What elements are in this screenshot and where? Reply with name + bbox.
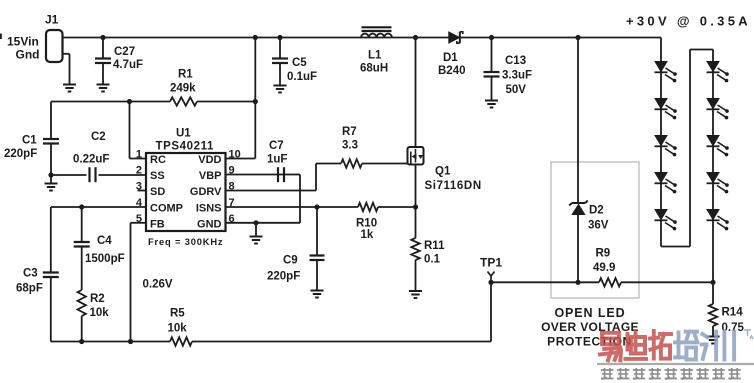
diode D2 zener <box>569 201 609 232</box>
svg-text:ISNS: ISNS <box>196 203 222 215</box>
wire C27 lower <box>102 63 104 84</box>
wire COMP row <box>51 206 146 208</box>
ground R11 <box>409 291 422 298</box>
svg-text:1: 1 <box>136 149 142 161</box>
wire C1 gnd stub <box>50 175 52 183</box>
wire C4 upper <box>81 207 83 241</box>
svg-text:R2: R2 <box>90 293 105 305</box>
node Q1 source junction <box>413 204 418 209</box>
ground C27 <box>97 85 110 92</box>
wire R14 lower <box>712 326 714 336</box>
watermark underline <box>597 363 754 365</box>
svg-text:OPEN LED: OPEN LED <box>554 306 625 320</box>
wire RC riser <box>130 102 147 159</box>
svg-text:Gnd: Gnd <box>16 48 40 62</box>
wire mid row left <box>491 281 599 283</box>
wire GDRV riser <box>315 164 317 191</box>
svg-text:Freq = 300KHz: Freq = 300KHz <box>148 237 223 247</box>
svg-text:GND: GND <box>197 219 222 231</box>
watermark big text <box>600 330 753 360</box>
LED D12 string1 <box>655 99 677 120</box>
svg-text:68uH: 68uH <box>360 63 388 75</box>
svg-text:C2: C2 <box>91 131 106 143</box>
svg-text:36V: 36V <box>588 220 609 232</box>
pin 7 ISNS <box>196 197 235 215</box>
wire Q1 source <box>415 165 417 208</box>
label open led text <box>541 306 639 349</box>
capacitor C5 <box>272 57 317 83</box>
pin 4 COMP <box>136 197 183 215</box>
node C4 tap <box>79 204 84 209</box>
wire R14 upper <box>712 282 714 304</box>
wire C5 upper <box>279 38 281 58</box>
wire TP1 drop <box>490 282 492 341</box>
LED D13 string1 <box>655 136 677 157</box>
capacitor C27 <box>95 46 143 71</box>
pin 1 RC <box>136 149 166 167</box>
wire R1 row <box>51 101 255 103</box>
edge mark <box>0 34 2 40</box>
svg-text:220pF: 220pF <box>4 148 37 160</box>
node RC tap <box>127 99 132 104</box>
LED D15 string1 <box>655 210 677 231</box>
wire C27 upper <box>102 38 104 58</box>
svg-text:+30V @ 0.35A: +30V @ 0.35A <box>626 14 751 29</box>
svg-text:0.22uF: 0.22uF <box>73 154 109 166</box>
resistor R7 <box>341 126 362 168</box>
inductor L1 <box>360 27 392 74</box>
transistor Q1 Si7116DN <box>408 147 482 192</box>
svg-text:10: 10 <box>229 149 241 161</box>
wire GND row <box>226 222 301 224</box>
wire C5 lower <box>279 63 281 85</box>
svg-text:B240: B240 <box>438 65 466 77</box>
resistor R10 <box>356 203 378 241</box>
svg-text:4.7uF: 4.7uF <box>113 59 143 71</box>
label FB voltage <box>143 279 173 291</box>
wire R11 upper <box>415 207 417 238</box>
wire GND gnd stub <box>255 223 257 236</box>
svg-text:VBP: VBP <box>199 170 222 182</box>
wire C3 upper <box>50 207 52 272</box>
svg-text:49.9: 49.9 <box>593 262 615 274</box>
wire C3 lower <box>50 277 52 342</box>
svg-text:3.3uF: 3.3uF <box>502 70 532 82</box>
ground C13 <box>485 101 498 108</box>
capacitor C9 <box>267 255 325 283</box>
svg-text:COMP: COMP <box>150 203 183 215</box>
wire C9 upper <box>316 207 318 255</box>
svg-text:C7: C7 <box>269 140 284 152</box>
svg-text:C4: C4 <box>97 235 112 247</box>
wire C1 upper <box>50 102 52 139</box>
node Q1 drain tap <box>413 35 418 40</box>
LED D11 string1 <box>655 62 677 83</box>
svg-text:SD: SD <box>150 186 165 198</box>
svg-text:C5: C5 <box>292 57 307 69</box>
svg-text:L1: L1 <box>368 50 382 62</box>
svg-text:C1: C1 <box>22 135 37 147</box>
LED D22 string2 <box>707 99 729 120</box>
ground R14 <box>707 337 720 344</box>
node R2 bottom <box>79 339 84 344</box>
wire SD stub <box>138 190 147 192</box>
pin 8 GDRV <box>190 181 235 199</box>
wire D2 upper <box>577 38 579 203</box>
svg-text:1500pF: 1500pF <box>85 253 125 265</box>
svg-text:U1: U1 <box>176 128 191 140</box>
svg-text:TP1: TP1 <box>480 256 502 270</box>
pin 10 VDD <box>198 149 240 167</box>
svg-text:VDD: VDD <box>198 154 221 166</box>
wire VBP row <box>226 174 301 176</box>
svg-text:Si7116DN: Si7116DN <box>425 180 482 192</box>
LED D24 string2 <box>707 173 729 194</box>
svg-text:1uF: 1uF <box>267 154 287 166</box>
capacitor C1 <box>4 135 59 161</box>
pin 6 GND <box>197 213 235 231</box>
svg-text:R11: R11 <box>424 240 445 252</box>
LED D23 string2 <box>707 136 729 157</box>
svg-text:TPS40211: TPS40211 <box>156 141 215 153</box>
svg-text:R9: R9 <box>596 248 611 260</box>
svg-text:2: 2 <box>136 165 142 177</box>
capacitor C2 <box>73 131 109 182</box>
wire J1 gnd pin <box>63 54 70 84</box>
LED D14 string1 <box>655 173 677 194</box>
resistor R11 <box>411 238 445 266</box>
svg-text:C9: C9 <box>283 255 298 267</box>
label output voltage <box>626 14 751 29</box>
node C9 tap <box>314 204 319 209</box>
wire D2 lower <box>577 215 579 283</box>
svg-text:FB: FB <box>150 219 165 231</box>
resistor R9 <box>593 248 621 287</box>
svg-text:R14: R14 <box>722 307 744 319</box>
pin 5 FB <box>136 213 165 231</box>
pin 9 VBP <box>199 165 235 183</box>
node C13 tap <box>489 35 494 40</box>
node TP1 junction <box>488 280 493 285</box>
wire Q1 drain <box>415 38 417 148</box>
op-amp U1 TPS40211 body <box>146 128 226 248</box>
svg-text:D2: D2 <box>589 205 604 217</box>
wire LED string bottom return <box>661 50 713 247</box>
svg-text:D1: D1 <box>443 52 458 64</box>
capacitor C4 <box>74 235 125 265</box>
node C5 tap <box>277 35 282 40</box>
resistor R2 <box>78 290 110 319</box>
svg-text:10k: 10k <box>90 307 110 319</box>
box open-led protection outline <box>551 162 639 298</box>
watermark small text <box>601 368 741 380</box>
wire C7 return <box>299 175 301 223</box>
node D2 rail tap <box>575 35 580 40</box>
wire C13 lower <box>491 77 493 101</box>
resistor R5 <box>168 308 193 346</box>
wire SS row <box>51 174 146 176</box>
svg-text:R1: R1 <box>178 69 193 81</box>
svg-text:RC: RC <box>150 154 166 166</box>
svg-text:0.1uF: 0.1uF <box>287 71 317 83</box>
svg-text:68pF: 68pF <box>16 283 43 295</box>
svg-text:R10: R10 <box>356 218 377 230</box>
node FB bottom <box>128 339 133 344</box>
node R1-VDD junction <box>253 99 258 104</box>
svg-text:R7: R7 <box>342 126 357 138</box>
ground C9 <box>311 291 324 298</box>
wire bottom feedback row <box>51 341 491 343</box>
wire R7 row <box>316 163 408 165</box>
node C27 tap <box>100 35 105 40</box>
svg-text:Q1: Q1 <box>435 166 451 178</box>
svg-text:J1: J1 <box>45 13 59 27</box>
svg-text:1k: 1k <box>361 229 374 241</box>
wire R11 lower <box>415 260 417 291</box>
svg-text:249k: 249k <box>170 83 196 95</box>
LED D25 string2 <box>707 210 729 231</box>
wire C13 upper <box>491 38 493 72</box>
capacitor C13 <box>484 55 533 96</box>
LED D21 string2 <box>707 62 729 83</box>
capacitor C7 <box>267 140 287 182</box>
pin 3 SD <box>136 181 165 199</box>
ground C1 <box>45 184 58 191</box>
svg-text:50V: 50V <box>506 84 527 96</box>
svg-text:220pF: 220pF <box>267 271 300 283</box>
ground U1 GND <box>250 237 263 244</box>
svg-text:3.3: 3.3 <box>342 140 358 152</box>
resistor R14 <box>709 304 745 334</box>
node R14 top <box>710 280 715 285</box>
wire ISNS row <box>226 206 416 208</box>
svg-text:R5: R5 <box>170 308 185 320</box>
wire mid row right <box>621 281 713 283</box>
wire C4-R2 <box>81 247 83 291</box>
test point TP1 <box>480 256 502 283</box>
connector J1 <box>7 13 63 63</box>
ground J1 <box>63 85 76 92</box>
wire FB riser <box>130 223 132 342</box>
diode D1 B240 <box>438 32 466 77</box>
svg-text:C3: C3 <box>23 268 38 280</box>
svg-text:C27: C27 <box>114 46 135 58</box>
capacitor C3 <box>16 268 59 295</box>
wire LED string 1 rail drop <box>660 38 662 247</box>
node D2 bottom <box>575 280 580 285</box>
node VDD rail tap <box>253 35 258 40</box>
wire GDRV row <box>226 190 317 192</box>
wire FB stub <box>131 222 147 224</box>
resistor R1 <box>170 69 197 106</box>
svg-text:0.1: 0.1 <box>424 254 441 266</box>
svg-text:OVER VOLTAGE: OVER VOLTAGE <box>541 320 639 334</box>
node GND gnd tap <box>253 220 258 225</box>
svg-text:15Vin: 15Vin <box>7 35 39 49</box>
svg-text:GDRV: GDRV <box>190 186 222 198</box>
wire R2 lower <box>81 316 83 342</box>
pin 2 SS <box>136 165 165 183</box>
svg-text:SS: SS <box>150 170 165 182</box>
svg-text:10k: 10k <box>168 323 188 335</box>
node C1/C2/gnd junction <box>48 172 53 177</box>
wire C9 lower <box>316 260 318 290</box>
wire C1 lower <box>50 144 52 176</box>
ground C5 <box>274 86 287 93</box>
svg-text:0.26V: 0.26V <box>143 279 173 291</box>
wire top VIN/output rail <box>63 37 662 39</box>
wire LED string 2 drop <box>712 50 714 283</box>
wire VDD riser <box>226 38 256 159</box>
svg-text:C13: C13 <box>505 55 526 67</box>
